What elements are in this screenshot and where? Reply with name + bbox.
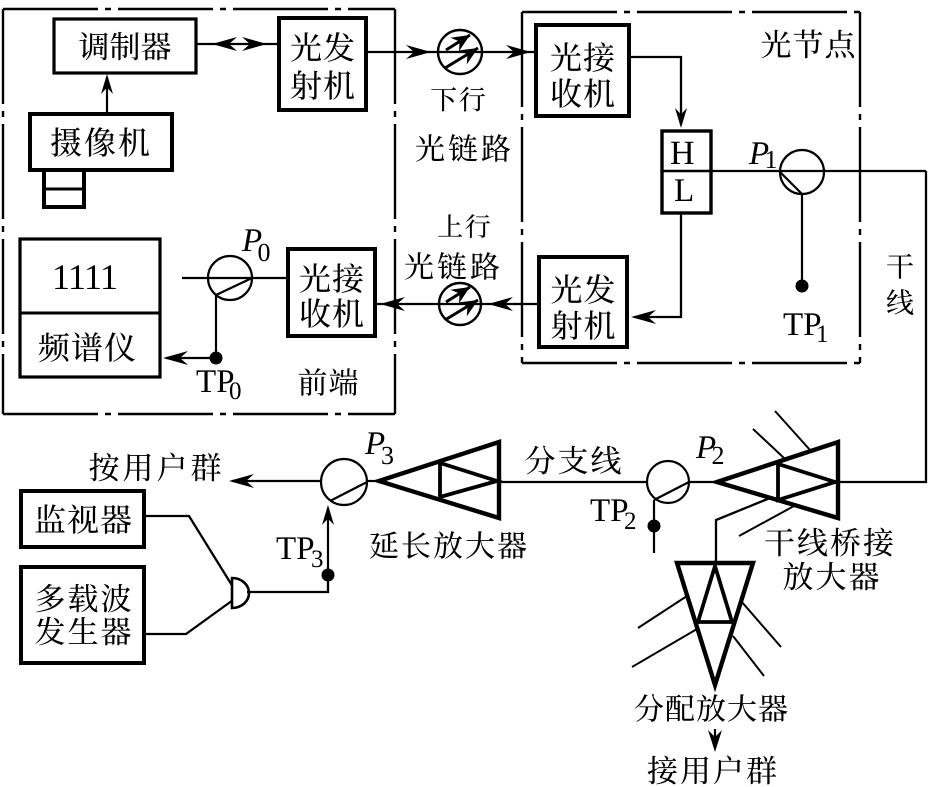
label 频谱仪 bbox=[39, 333, 69, 362]
bridger tap line upper-right bbox=[775, 411, 810, 450]
bridger tap line upper-left bbox=[753, 429, 784, 458]
label TP1 bbox=[784, 313, 803, 335]
label 分配放大器 bbox=[635, 694, 663, 722]
arrowhead to user group (bottom) bbox=[708, 730, 722, 752]
wire H/L to trunk via P1 bbox=[711, 170, 926, 172]
camera box 摄像机 bbox=[30, 114, 172, 170]
arrowhead into H/L bbox=[675, 108, 687, 128]
label 收机 (headend) bbox=[301, 298, 330, 327]
arrowhead into spectrum analyzer bbox=[163, 351, 188, 365]
wire modulator to optical transmitter (bidirectional) bbox=[196, 43, 279, 45]
P0 coupler slash bbox=[216, 278, 252, 295]
label 摄像机 bbox=[51, 127, 81, 156]
modulator box 调制器 bbox=[54, 19, 196, 73]
label H bbox=[671, 142, 694, 164]
label 下行 bbox=[431, 87, 456, 111]
arrowhead into headend receiver bbox=[380, 297, 405, 311]
bridger tap line lower bbox=[739, 506, 794, 536]
arrowhead into upstream attenuator bbox=[488, 297, 513, 311]
wire monitor to combiner bbox=[144, 516, 233, 587]
label 光链路 bbox=[416, 134, 444, 162]
wire extension amp to P2 (branch line 分支线) bbox=[499, 481, 647, 483]
optical receiver box 光接收机 (node) bbox=[536, 25, 629, 116]
arrowhead up into P3 bbox=[322, 505, 334, 525]
label 干线桥接 bbox=[765, 528, 794, 556]
wire TP3 up into P3 bbox=[327, 508, 329, 575]
distribution tap line upper-right bbox=[741, 601, 781, 647]
label 监视器 bbox=[35, 504, 65, 532]
label 光发 bbox=[291, 32, 321, 61]
optical receiver box 光接收机 (headend) bbox=[288, 249, 375, 336]
label 光接 (headend) bbox=[300, 263, 330, 292]
wire P2 tap down bbox=[653, 500, 655, 553]
arrowhead left bbox=[212, 37, 237, 51]
H/L diplex filter box bbox=[662, 131, 711, 213]
TP1 junction dot bbox=[796, 280, 809, 293]
label 延长放大器 bbox=[370, 531, 398, 558]
test point coupler P1 bbox=[780, 150, 824, 194]
wire bridger tap to distribution amplifier bbox=[716, 498, 770, 562]
label TP3 bbox=[277, 537, 296, 559]
distribution tap line lower-left bbox=[632, 629, 697, 667]
distribution tap line upper-left bbox=[638, 596, 687, 628]
wire H/L to node transmitter bbox=[634, 213, 681, 317]
trunk wire 干线 bbox=[838, 171, 926, 482]
label 前端 bbox=[299, 368, 327, 396]
arrow camera to modulator bbox=[101, 74, 113, 94]
label P1 bbox=[749, 142, 768, 164]
label 放大器 (bridger) bbox=[784, 562, 813, 591]
TP3 junction dot bbox=[322, 569, 335, 582]
label 调制器 bbox=[79, 32, 107, 60]
optical transmitter box 光发射机 (node) bbox=[539, 257, 627, 347]
wire multicarrier generator to combiner bbox=[144, 600, 233, 634]
label 光链路 (upstream) bbox=[405, 252, 433, 280]
wire P1 tap down bbox=[801, 194, 803, 280]
H/L divider bbox=[662, 170, 711, 172]
signal combiner bbox=[232, 578, 249, 608]
headend enclosure top edge bbox=[3, 8, 395, 10]
spectrum analyzer divider bbox=[20, 312, 160, 315]
optical node enclosure right edge bbox=[859, 12, 861, 363]
arrowhead into node receiver bbox=[506, 45, 531, 59]
monitor box 监视器 bbox=[21, 491, 144, 547]
distribution amplifier 分配放大器 bbox=[677, 563, 753, 685]
optical node enclosure bottom edge bbox=[522, 362, 860, 364]
wire node transmitter to headend receiver bbox=[375, 303, 539, 305]
label 分支线 bbox=[525, 446, 554, 475]
P2 coupler slash bbox=[654, 482, 689, 500]
optical transmitter box 光发射机 (headend) bbox=[279, 18, 366, 110]
wire TP0 to spectrum analyzer bbox=[166, 357, 210, 359]
wire distribution amp output arrow bbox=[714, 729, 716, 748]
P1 coupler slash bbox=[780, 172, 802, 194]
label 光发 (node) bbox=[552, 274, 582, 303]
label 线 (trunk) bbox=[887, 289, 914, 315]
wire node receiver to H/L filter bbox=[629, 57, 681, 124]
upstream optical attenuator bbox=[439, 283, 481, 325]
wire camera to modulator bbox=[106, 77, 108, 114]
test point coupler P0 bbox=[208, 256, 252, 300]
label P3 bbox=[365, 432, 384, 454]
extension amplifier 延长放大器 bbox=[379, 442, 499, 518]
test point coupler P3 bbox=[321, 459, 367, 505]
label TP2 bbox=[591, 499, 610, 521]
optical node enclosure left edge bbox=[521, 12, 523, 363]
wire P3 to extension amplifier bbox=[367, 480, 380, 482]
test point coupler P2 bbox=[647, 461, 689, 503]
label 射机 bbox=[291, 70, 321, 99]
arrowhead to user group bbox=[229, 474, 254, 488]
wire spectrum to headend receiver via P0 bbox=[182, 277, 288, 279]
wire combiner to TP3 bbox=[247, 575, 328, 592]
optical node enclosure top edge bbox=[522, 11, 860, 13]
label 1111 bbox=[55, 265, 68, 289]
label P0 bbox=[242, 229, 261, 251]
camera lens body bbox=[44, 170, 84, 207]
arrowhead into node transmitter bbox=[631, 310, 656, 324]
wire P3 to user-group arrow bbox=[232, 480, 321, 482]
camera lens divider bbox=[44, 188, 84, 191]
arrowhead into attenuator bbox=[406, 45, 431, 59]
multicarrier generator box 多载波发生器 bbox=[21, 567, 144, 663]
headend enclosure left edge bbox=[2, 9, 4, 414]
label 上行 bbox=[438, 214, 462, 236]
label L bbox=[675, 179, 692, 201]
trunk bridger amplifier 干线桥接放大器 bbox=[717, 442, 838, 518]
label 射机 (node) bbox=[552, 310, 582, 339]
wire P0 tap down bbox=[215, 295, 217, 352]
wire transmitter to downstream attenuator bbox=[366, 51, 536, 53]
label 接用户群 bbox=[648, 756, 677, 785]
label 光节点 bbox=[761, 30, 790, 59]
TP2 junction dot bbox=[648, 520, 661, 533]
label 干 (trunk) bbox=[887, 254, 913, 279]
label 光接 bbox=[551, 42, 581, 71]
spectrum analyzer box bbox=[20, 239, 160, 377]
label P2 bbox=[696, 436, 715, 458]
label 多载波 bbox=[36, 584, 64, 612]
label TP0 bbox=[197, 370, 216, 392]
headend enclosure bottom edge bbox=[3, 413, 395, 415]
arrowhead right bbox=[242, 37, 267, 51]
label 收机 bbox=[552, 78, 581, 107]
downstream optical attenuator bbox=[438, 30, 482, 74]
P3 coupler slash bbox=[330, 482, 367, 501]
label 按用户群 bbox=[89, 453, 118, 482]
label 发生器 bbox=[35, 617, 64, 646]
distribution tap line lower-right bbox=[733, 636, 764, 676]
wire P2 to bridger amplifier bbox=[689, 481, 718, 483]
TP0 junction dot bbox=[210, 352, 223, 365]
headend enclosure right edge bbox=[394, 9, 396, 414]
